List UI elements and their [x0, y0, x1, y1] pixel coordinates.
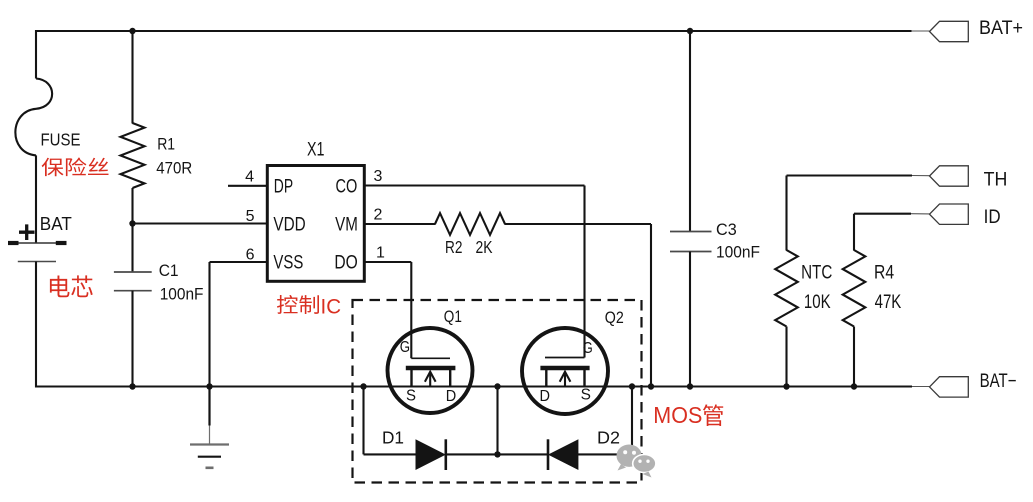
connector ID [930, 204, 969, 224]
svg-text:470R: 470R [156, 160, 192, 178]
svg-text:6: 6 [246, 247, 255, 264]
wire ID rail [854, 213, 911, 215]
wire VM to R2 [364, 223, 436, 225]
node top rail / R1 [129, 28, 135, 34]
svg-text:10K: 10K [804, 292, 831, 313]
svg-text:DO: DO [334, 252, 357, 273]
battery BAT negative plate [18, 261, 56, 263]
wire top rail BAT+ [35, 30, 912, 32]
wire battery to bottom rail [35, 262, 37, 388]
resistor NTC [775, 250, 798, 327]
wire fuse to battery [35, 155, 37, 243]
svg-text:D2: D2 [597, 428, 620, 448]
diode D2 [548, 439, 578, 470]
svg-text:FUSE: FUSE [41, 130, 81, 150]
wire D1 cathode to center [446, 453, 498, 455]
node VDD tap [129, 220, 135, 226]
label 保险丝 (fuse) [42, 158, 109, 177]
svg-text:VDD: VDD [273, 214, 305, 235]
diode D1 [416, 439, 446, 470]
svg-text:47K: 47K [875, 292, 902, 313]
transistor Q2 channel bar [540, 366, 589, 370]
svg-text:BAT: BAT [40, 213, 72, 234]
svg-text:G: G [400, 339, 410, 356]
resistor R4 [843, 250, 866, 327]
wire TH down to NTC [785, 176, 787, 251]
svg-text:BAT−: BAT− [980, 370, 1017, 392]
node C1 bottom rail [129, 383, 135, 389]
wire top rail to R1 [131, 31, 133, 124]
wire VM column down [650, 224, 652, 387]
node D1 top / bottom rail [360, 383, 366, 389]
wire TH connector lead [912, 175, 930, 177]
wire center to D2 cathode [498, 453, 549, 455]
wire R2 to VM column [505, 223, 652, 225]
svg-text:Q1: Q1 [444, 308, 462, 326]
wire VDD to IC [133, 222, 268, 224]
transistor Q1 body circle [388, 328, 473, 413]
connector BAT- [930, 377, 969, 397]
svg-text:X1: X1 [307, 140, 325, 161]
node C3 bottom rail [687, 383, 693, 389]
svg-text:100nF: 100nF [160, 286, 204, 304]
svg-text:D: D [540, 388, 551, 405]
wire DO to Q1 gate column [364, 261, 411, 263]
node VSS bottom rail [206, 383, 212, 389]
svg-text:ID: ID [984, 206, 1001, 228]
svg-text:D1: D1 [382, 428, 404, 448]
wire C3 to bottom rail [689, 252, 691, 387]
svg-text:R4: R4 [874, 263, 894, 284]
svg-text:S: S [581, 387, 591, 404]
svg-text:S: S [406, 388, 416, 405]
transistor Q1 gate bar [411, 357, 450, 359]
ground symbol [190, 445, 229, 468]
MOS block dashed outline [353, 300, 642, 483]
wire D2 anode [577, 453, 632, 455]
wire BAT+ connector lead [912, 30, 931, 32]
wire bottom rail BAT- [35, 385, 912, 387]
wire BAT- connector lead [912, 386, 930, 388]
svg-text:R2: R2 [445, 237, 462, 257]
transistor Q2 source leg [583, 368, 585, 387]
transistor Q2 body circle [522, 328, 608, 414]
wire left rail upper [35, 30, 37, 79]
ground stem [208, 387, 210, 445]
svg-text:4: 4 [245, 168, 254, 185]
wire CO to Q2 gate column [364, 184, 585, 186]
node R4 bottom rail [851, 383, 857, 389]
capacitor C1 [114, 272, 152, 291]
wire top rail to C3 [689, 31, 691, 232]
svg-text:G: G [583, 340, 593, 357]
svg-text:Q2: Q2 [605, 309, 624, 327]
transistor Q1 drain leg [449, 368, 451, 387]
svg-text:DP: DP [274, 176, 293, 197]
svg-text:C3: C3 [716, 221, 737, 239]
svg-text:3: 3 [374, 168, 383, 185]
svg-text:CO: CO [336, 176, 358, 197]
svg-text:VSS: VSS [273, 252, 303, 273]
node center diode junction [494, 451, 500, 457]
capacitor C3 [670, 232, 712, 252]
wire ID connector lead [911, 213, 930, 215]
wire Q2 gate vertical [583, 186, 585, 358]
transistor Q2 body-diode arrow [560, 372, 571, 387]
wire VSS from IC [210, 261, 268, 263]
node D2 top / bottom rail [629, 383, 635, 389]
svg-text:5: 5 [246, 208, 255, 225]
battery BAT positive plate [8, 242, 67, 244]
battery BAT plus sign [19, 224, 35, 240]
node center bottom rail [494, 383, 500, 389]
wire R1 to C1 [131, 188, 133, 272]
node VM bottom rail [648, 383, 654, 389]
transistor Q2 drain leg [545, 368, 547, 387]
connector BAT+ [930, 21, 969, 41]
svg-text:MOS: MOS [653, 402, 702, 428]
connector TH [930, 166, 969, 186]
transistor Q1 source leg [410, 368, 412, 387]
svg-text:VM: VM [335, 214, 358, 235]
wire Q1 gate vertical [410, 262, 412, 358]
wire VSS down [208, 262, 210, 387]
svg-text:2K: 2K [476, 237, 493, 257]
svg-text:TH: TH [984, 169, 1008, 191]
wire D2 right rise [631, 387, 633, 455]
svg-text:IC: IC [321, 296, 342, 319]
transistor Q1 body-diode arrow [425, 372, 436, 387]
wire D1 anode [364, 453, 417, 455]
resistor R1 [121, 123, 145, 188]
label 控制IC (control IC) [277, 295, 341, 319]
node top rail / C3 [687, 28, 693, 34]
svg-text:100nF: 100nF [716, 243, 760, 261]
wire D1 left drop [362, 387, 364, 455]
svg-text:D: D [446, 388, 457, 405]
watermark wechat bubbles [617, 445, 656, 478]
node NTC bottom rail [783, 383, 789, 389]
wire R4 to bottom rail [853, 327, 855, 387]
transistor Q1 channel bar [406, 366, 456, 370]
wire C1 to bottom rail [131, 291, 133, 387]
pin 4 stub DP [228, 185, 267, 187]
wire center drop [496, 387, 498, 455]
svg-text:NTC: NTC [801, 263, 832, 284]
svg-text:BAT+: BAT+ [979, 17, 1023, 39]
wire NTC to bottom rail [785, 327, 787, 387]
transistor Q2 gate bar [545, 357, 585, 359]
label 电芯 (cell) [50, 275, 93, 297]
svg-text:2: 2 [374, 207, 383, 224]
svg-text:R1: R1 [157, 136, 175, 154]
svg-text:C1: C1 [159, 262, 179, 280]
label MOS管 (MOSFETs) [653, 402, 723, 428]
wire ID down to R4 [853, 214, 855, 251]
fuse FUSE [15, 79, 52, 156]
svg-text:1: 1 [376, 245, 385, 262]
wire TH rail [787, 174, 913, 176]
IC X1 (control IC) body [267, 166, 364, 282]
resistor R2 [435, 213, 505, 235]
